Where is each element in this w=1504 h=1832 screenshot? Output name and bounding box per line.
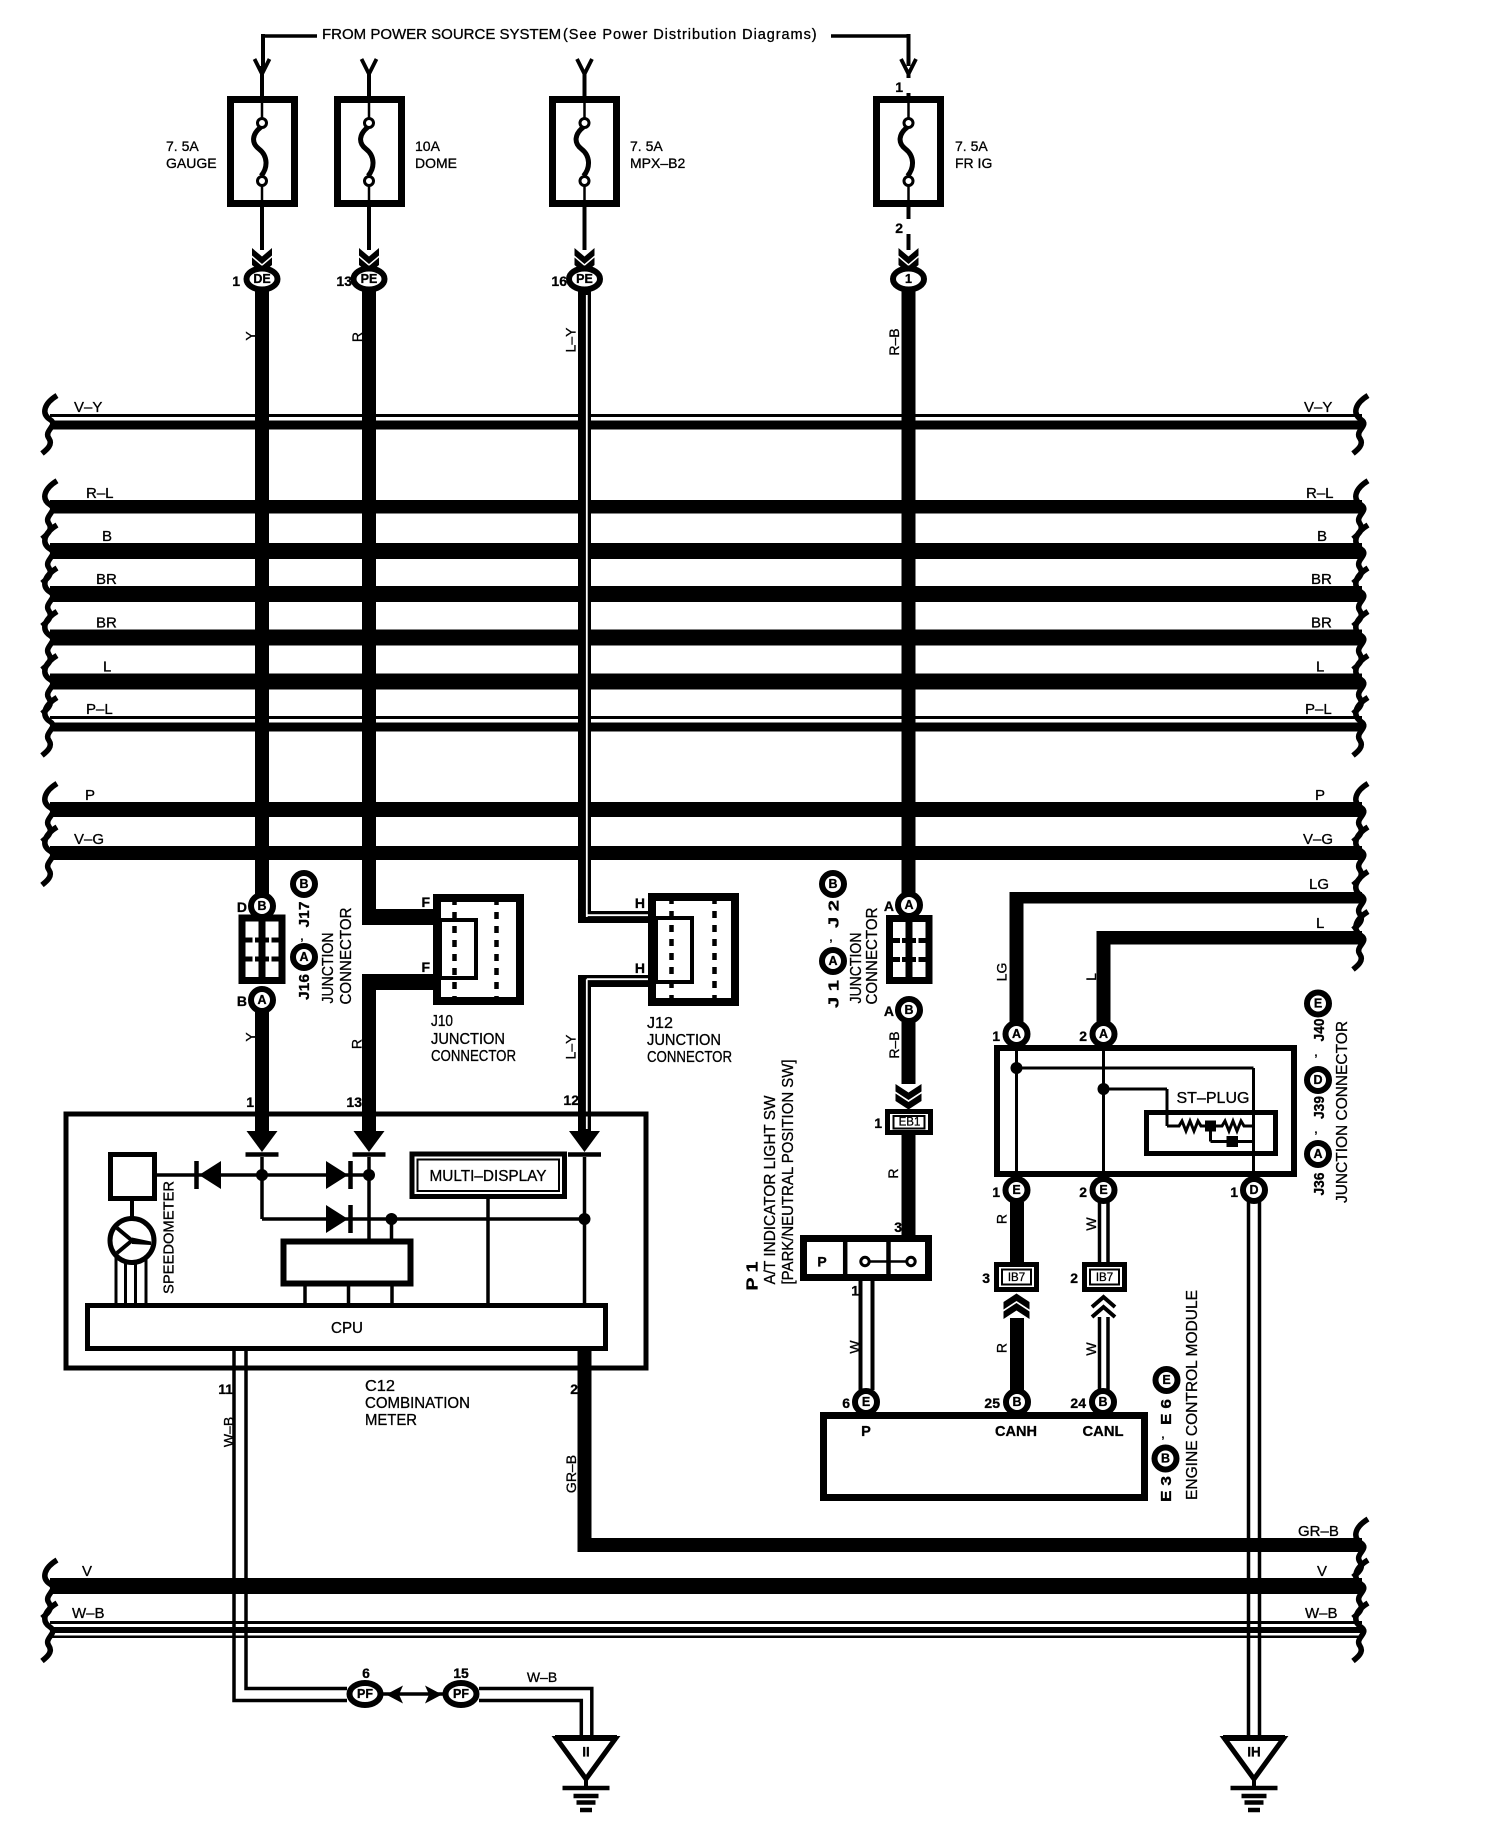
svg-text:6: 6 [362, 1665, 370, 1681]
svg-text:P–L: P–L [1305, 701, 1332, 718]
svg-text:2: 2 [1079, 1028, 1087, 1044]
svg-text:J 1: J 1 [826, 980, 843, 1008]
svg-text:A: A [828, 954, 837, 968]
svg-text:IB7: IB7 [1096, 1272, 1113, 1284]
svg-text:COMBINATION: COMBINATION [365, 1395, 470, 1412]
svg-text:E: E [1314, 997, 1322, 1011]
svg-text:V–G: V–G [74, 831, 104, 848]
svg-text:7. 5A: 7. 5A [955, 138, 988, 154]
svg-text:E: E [1012, 1183, 1020, 1197]
svg-text:1: 1 [1230, 1184, 1238, 1200]
svg-text:25: 25 [984, 1395, 1000, 1411]
svg-text:SPEEDOMETER: SPEEDOMETER [161, 1181, 178, 1294]
svg-text:V: V [1317, 1563, 1327, 1580]
svg-text:W: W [1083, 1217, 1099, 1231]
svg-text:E: E [862, 1395, 870, 1409]
svg-text:E: E [1099, 1183, 1107, 1197]
svg-text:J36: J36 [1311, 1173, 1328, 1196]
svg-text:W–B: W–B [527, 1669, 557, 1685]
svg-text:PE: PE [361, 272, 378, 286]
svg-text:JUNCTION CONNECTOR: JUNCTION CONNECTOR [1334, 1021, 1351, 1203]
svg-text:DE: DE [253, 272, 270, 286]
svg-text:B: B [299, 877, 308, 891]
svg-text:PE: PE [576, 272, 593, 286]
svg-text:V–G: V–G [1303, 831, 1333, 848]
svg-text:(See Power Distribution Diagra: (See Power Distribution Diagrams) [563, 27, 818, 43]
svg-text:CONNECTOR: CONNECTOR [338, 908, 355, 1005]
svg-text:BR: BR [96, 615, 117, 632]
svg-text:R–B: R–B [886, 328, 902, 355]
svg-text:JUNCTION: JUNCTION [431, 1031, 505, 1048]
svg-text:J17: J17 [296, 902, 313, 928]
svg-text:L: L [1316, 915, 1324, 932]
svg-text:13: 13 [336, 273, 352, 289]
svg-text:10A: 10A [415, 138, 441, 154]
svg-text:P–L: P–L [86, 701, 113, 718]
svg-text:V: V [82, 1563, 92, 1580]
svg-text:B: B [1161, 1452, 1170, 1466]
svg-text:GR–B: GR–B [1298, 1523, 1339, 1540]
svg-text:JUNCTION: JUNCTION [320, 933, 337, 1004]
svg-text:BR: BR [96, 571, 117, 588]
svg-text:1: 1 [851, 1283, 859, 1299]
svg-text:BR: BR [1311, 571, 1332, 588]
svg-text:J 2: J 2 [826, 900, 843, 928]
svg-text:J12: J12 [647, 1015, 673, 1032]
svg-text:BR: BR [1311, 615, 1332, 632]
svg-text:A: A [904, 898, 913, 912]
svg-text:R–B: R–B [886, 1031, 902, 1058]
svg-text:JUNCTION: JUNCTION [848, 933, 865, 1004]
svg-text:C12: C12 [365, 1378, 395, 1395]
svg-text:A/T INDICATOR LIGHT SW: A/T INDICATOR LIGHT SW [762, 1095, 779, 1285]
svg-text:,: , [829, 928, 833, 944]
svg-text:P 1: P 1 [745, 1261, 762, 1290]
svg-text:B: B [904, 1003, 913, 1017]
svg-text:2: 2 [895, 220, 903, 236]
svg-text:L–Y: L–Y [563, 327, 579, 353]
svg-text:F: F [421, 894, 430, 910]
svg-text:B: B [1317, 528, 1327, 545]
svg-text:P: P [85, 787, 95, 804]
svg-text:CONNECTOR: CONNECTOR [864, 908, 881, 1005]
svg-text:3: 3 [982, 1270, 990, 1286]
svg-text:3: 3 [894, 1219, 902, 1235]
svg-text:1: 1 [992, 1028, 1000, 1044]
svg-text:ENGINE CONTROL MODULE: ENGINE CONTROL MODULE [1184, 1290, 1201, 1500]
svg-text:CONNECTOR: CONNECTOR [431, 1048, 516, 1065]
svg-text:W–B: W–B [221, 1417, 237, 1447]
svg-text:F: F [421, 959, 430, 975]
svg-text:1: 1 [874, 1115, 882, 1131]
svg-text:6: 6 [842, 1395, 850, 1411]
svg-text:H: H [635, 960, 645, 976]
svg-text:,: , [300, 927, 304, 943]
svg-text:DOME: DOME [415, 155, 457, 171]
svg-text:L: L [1083, 973, 1099, 981]
svg-text:,: , [1161, 1425, 1165, 1441]
svg-text:CONNECTOR: CONNECTOR [647, 1049, 732, 1066]
svg-text:A: A [1313, 1147, 1322, 1161]
svg-text:R: R [885, 1168, 901, 1178]
svg-text:B: B [237, 993, 247, 1009]
svg-text:PF: PF [453, 1687, 469, 1701]
svg-text:E: E [1162, 1373, 1170, 1387]
svg-text:GAUGE: GAUGE [166, 155, 217, 171]
svg-text:D: D [237, 899, 247, 915]
svg-text:JUNCTION: JUNCTION [647, 1032, 721, 1049]
svg-text:,: , [1314, 1043, 1318, 1059]
svg-text:IH: IH [1247, 1745, 1261, 1760]
svg-text:A: A [299, 950, 308, 964]
svg-text:2: 2 [1070, 1270, 1078, 1286]
svg-text:7. 5A: 7. 5A [630, 138, 663, 154]
svg-text:R: R [349, 1039, 365, 1049]
svg-text:D: D [1313, 1073, 1322, 1087]
svg-text:[PARK/NEUTRAL POSITION SW]: [PARK/NEUTRAL POSITION SW] [780, 1060, 797, 1285]
svg-text:A: A [884, 1003, 894, 1019]
svg-text:FROM POWER SOURCE SYSTEM: FROM POWER SOURCE SYSTEM [322, 26, 561, 43]
svg-text:GR–B: GR–B [563, 1455, 579, 1493]
svg-text:1: 1 [246, 1094, 254, 1110]
svg-text:B: B [257, 899, 266, 913]
svg-text:CANH: CANH [995, 1424, 1037, 1440]
svg-text:V–Y: V–Y [74, 399, 102, 416]
svg-text:H: H [635, 895, 645, 911]
svg-text:P: P [861, 1424, 871, 1440]
svg-text:15: 15 [453, 1665, 469, 1681]
svg-text:7. 5A: 7. 5A [166, 138, 199, 154]
svg-text:,: , [1314, 1120, 1318, 1136]
svg-text:11: 11 [218, 1381, 233, 1397]
svg-text:E 6: E 6 [1158, 1399, 1175, 1425]
svg-text:W–B: W–B [72, 1605, 105, 1622]
svg-text:V–Y: V–Y [1304, 399, 1332, 416]
svg-text:CPU: CPU [331, 1320, 363, 1337]
svg-text:Y: Y [243, 1032, 259, 1042]
svg-text:PF: PF [357, 1687, 373, 1701]
svg-text:LG: LG [1309, 876, 1329, 893]
svg-text:P: P [1315, 787, 1325, 804]
svg-text:24: 24 [1070, 1395, 1086, 1411]
svg-text:MPX–B2: MPX–B2 [630, 155, 685, 171]
svg-text:J39: J39 [1311, 1096, 1328, 1119]
svg-text:ST–PLUG: ST–PLUG [1177, 1090, 1250, 1107]
svg-text:LG: LG [994, 963, 1010, 982]
svg-text:MULTI–DISPLAY: MULTI–DISPLAY [430, 1168, 547, 1185]
svg-text:2: 2 [570, 1381, 578, 1397]
svg-text:EB1: EB1 [899, 1117, 921, 1129]
svg-text:R–L: R–L [86, 485, 114, 502]
svg-text:L: L [103, 659, 111, 676]
svg-text:1: 1 [895, 79, 903, 95]
svg-text:B: B [1098, 1395, 1107, 1409]
svg-text:16: 16 [551, 273, 567, 289]
svg-text:13: 13 [346, 1094, 362, 1110]
svg-text:A: A [1012, 1027, 1021, 1041]
svg-text:J16: J16 [296, 974, 313, 1000]
svg-text:2: 2 [1079, 1184, 1087, 1200]
svg-text:W–B: W–B [1305, 1605, 1338, 1622]
svg-text:B: B [828, 877, 837, 891]
svg-text:P: P [817, 1254, 826, 1270]
svg-text:R: R [994, 1343, 1010, 1353]
svg-text:D: D [1249, 1183, 1258, 1197]
svg-text:IB7: IB7 [1008, 1272, 1025, 1284]
svg-text:W: W [1083, 1342, 1099, 1356]
svg-text:W: W [847, 1340, 863, 1354]
svg-text:R: R [994, 1214, 1010, 1224]
svg-text:B: B [102, 528, 112, 545]
svg-text:CANL: CANL [1083, 1424, 1124, 1440]
svg-text:FR IG: FR IG [955, 155, 992, 171]
svg-text:II: II [582, 1745, 590, 1760]
svg-text:A: A [257, 993, 266, 1007]
svg-text:METER: METER [365, 1412, 417, 1429]
svg-text:1: 1 [232, 273, 240, 289]
svg-text:L–Y: L–Y [563, 1034, 579, 1060]
svg-text:1: 1 [905, 272, 912, 286]
svg-text:J10: J10 [431, 1013, 453, 1030]
svg-text:J40: J40 [1311, 1019, 1328, 1042]
svg-text:A: A [884, 898, 894, 914]
svg-text:B: B [1012, 1395, 1021, 1409]
svg-text:E 3: E 3 [1158, 1476, 1175, 1502]
svg-text:R–L: R–L [1306, 485, 1334, 502]
svg-text:12: 12 [563, 1092, 579, 1108]
svg-text:1: 1 [992, 1184, 1000, 1200]
svg-text:A: A [1099, 1027, 1108, 1041]
svg-text:L: L [1316, 659, 1324, 676]
